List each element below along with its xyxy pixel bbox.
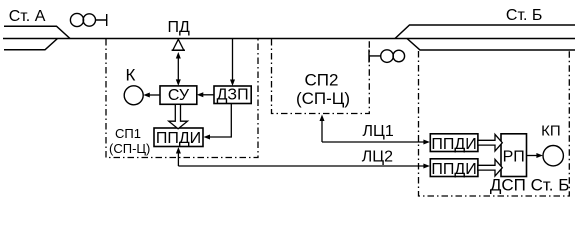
svg-text:СУ: СУ bbox=[168, 87, 190, 104]
svg-text:(СП-Ц): (СП-Ц) bbox=[109, 141, 150, 156]
svg-text:К: К bbox=[126, 66, 136, 85]
svg-text:СП1: СП1 bbox=[115, 126, 141, 141]
svg-text:ЛЦ1: ЛЦ1 bbox=[363, 123, 394, 140]
svg-text:ПД: ПД bbox=[168, 19, 191, 36]
svg-text:ДЗП: ДЗП bbox=[217, 87, 249, 104]
svg-text:ДСП Ст. Б: ДСП Ст. Б bbox=[490, 175, 570, 194]
svg-text:РП: РП bbox=[503, 149, 525, 166]
svg-text:КП: КП bbox=[541, 123, 561, 140]
svg-text:Ст. А: Ст. А bbox=[9, 8, 46, 25]
svg-text:ППДИ: ППДИ bbox=[156, 130, 201, 147]
svg-text:ППДИ: ППДИ bbox=[431, 136, 476, 153]
svg-text:ППДИ: ППДИ bbox=[431, 161, 476, 178]
svg-text:ЛЦ2: ЛЦ2 bbox=[362, 149, 393, 166]
svg-text:Ст. Б: Ст. Б bbox=[506, 7, 543, 24]
svg-text:(СП-Ц): (СП-Ц) bbox=[296, 89, 350, 108]
svg-text:СП2: СП2 bbox=[305, 70, 339, 89]
